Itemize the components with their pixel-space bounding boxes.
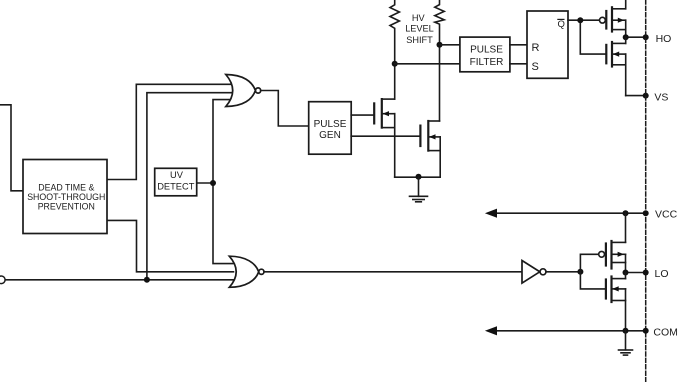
node LIN junction dot bbox=[144, 277, 150, 283]
NOR gate U2 (bottom) bbox=[229, 256, 264, 287]
svg-text:R: R bbox=[532, 42, 540, 54]
wire M6 source down to COM bbox=[625, 289, 627, 331]
box PULSE GEN bbox=[309, 102, 352, 155]
wire A (dead-time upper output to NOR1 input 1) bbox=[107, 84, 232, 179]
arrow VCC (left) bbox=[485, 209, 497, 218]
gate bubble of M3 bbox=[600, 17, 606, 23]
node COM junction dot bbox=[623, 328, 629, 334]
node Qbar junction bbox=[577, 17, 583, 23]
wire VCC to M5 drain bbox=[625, 213, 627, 242]
wire B (dead-time lower output to NOR2 input 2) bbox=[107, 220, 234, 271]
ground GND2 bbox=[625, 331, 627, 350]
wire M3 drain to top edge bbox=[625, 0, 627, 9]
wire Qbar output (latch to M3 gate) bbox=[568, 19, 600, 21]
terminal VS dot bbox=[643, 93, 649, 99]
svg-text:LO: LO bbox=[655, 268, 669, 280]
gate bubble of M5 bbox=[599, 251, 605, 257]
dashed IC boundary line bbox=[645, 0, 647, 382]
wire LIN branch (up to NOR1 input 2) bbox=[147, 93, 232, 280]
terminal HO dot bbox=[643, 34, 649, 40]
node source rail junction bbox=[416, 174, 422, 180]
arrow COM (left) bbox=[485, 326, 497, 335]
wire VS node bbox=[626, 95, 646, 97]
wire pulse gen out 1 (to M1 gate) bbox=[351, 114, 374, 116]
node inverter output junction dot bbox=[577, 269, 583, 275]
svg-text:HV: HV bbox=[412, 13, 426, 23]
wire inverter output bbox=[546, 271, 580, 273]
wire pulse gen out 2 (to M2 gate) bbox=[351, 135, 420, 137]
node LO junction dot bbox=[623, 270, 629, 276]
NOR gate U1 (top) bbox=[226, 75, 261, 107]
wire NOR1 output to pulse gen bbox=[261, 91, 309, 127]
node VCC junction dot bbox=[623, 210, 629, 216]
label PULSE FILTER text bbox=[470, 45, 504, 68]
svg-text:Q: Q bbox=[558, 19, 565, 30]
wire Qbar branch (down to M4 gate) bbox=[580, 20, 606, 54]
box PULSE FILTER bbox=[460, 37, 510, 72]
svg-text:UV: UV bbox=[170, 170, 184, 180]
wire S (to pulse filter) bbox=[395, 63, 460, 65]
wire M2 source to common rail bbox=[439, 137, 441, 177]
wire to ground bbox=[418, 177, 420, 196]
svg-text:SHIFT: SHIFT bbox=[406, 35, 433, 45]
resistor R1 (left) bbox=[390, 0, 399, 99]
wire pulse filter to latch S bbox=[510, 63, 527, 65]
ground GND1 bbox=[410, 195, 428, 197]
latch U3 (RS latch box) bbox=[527, 11, 568, 78]
svg-text:PULSE: PULSE bbox=[314, 119, 347, 130]
resistor R2 (right) bbox=[435, 0, 444, 121]
wire VCC rail bbox=[495, 212, 646, 214]
svg-text:HO: HO bbox=[656, 33, 672, 45]
terminal VCC dot bbox=[643, 210, 649, 216]
node HO junction dot bbox=[623, 34, 629, 40]
wire to M5 gate bbox=[580, 254, 598, 271]
transistor M1 (left level-shift FET) bbox=[374, 99, 382, 128]
node R1/pulse-filter S junction bbox=[392, 61, 398, 67]
wire pulse filter to latch R bbox=[510, 44, 527, 46]
wire UV detect output stub bbox=[197, 182, 214, 184]
wire to M6 gate bbox=[580, 272, 606, 289]
wire M6 drain to LO node bbox=[625, 273, 627, 279]
svg-text:GEN: GEN bbox=[319, 130, 341, 141]
svg-text:FILTER: FILTER bbox=[470, 57, 504, 68]
svg-text:DETECT: DETECT bbox=[157, 182, 195, 192]
box UV DETECT bbox=[155, 168, 197, 196]
wire UV detect net (vertical to both NOR gates) bbox=[213, 100, 235, 264]
wire common source rail bbox=[395, 176, 441, 178]
node UV junction dot bbox=[210, 180, 216, 186]
wire HO node bbox=[626, 36, 646, 38]
svg-text:PREVENTION: PREVENTION bbox=[38, 201, 95, 211]
wire M1 source to common rail bbox=[394, 114, 396, 178]
svg-text:VCC: VCC bbox=[655, 209, 678, 221]
label PULSE GEN text bbox=[314, 119, 347, 141]
box DEAD TIME / SHOOT-THROUGH PREVENTION bbox=[23, 160, 107, 234]
node R2/pulse-filter R junction bbox=[437, 42, 443, 48]
transistor M2 (right level-shift FET) bbox=[420, 121, 428, 151]
transistor M5 (low-side upper FET) bbox=[606, 241, 612, 269]
svg-text:S: S bbox=[532, 61, 539, 73]
wire NOR2 output to inverter bbox=[264, 271, 522, 273]
svg-text:VS: VS bbox=[654, 91, 668, 103]
svg-text:LEVEL: LEVEL bbox=[405, 24, 434, 34]
label UV DETECT text bbox=[157, 170, 195, 192]
wire HIN input (left edge to dead-time box) bbox=[0, 105, 23, 191]
inverter U4 bbox=[522, 261, 546, 284]
label DEAD TIME box text bbox=[27, 183, 105, 212]
transistor M3 (high-side upper FET) bbox=[606, 7, 612, 31]
wire COM rail bbox=[495, 330, 646, 332]
svg-text:PULSE: PULSE bbox=[470, 45, 503, 56]
wire M4 source down to VS bbox=[625, 54, 627, 96]
wire LO node bbox=[626, 272, 646, 274]
wire M5 source to LO node bbox=[625, 254, 627, 272]
wire M4 drain to HO node bbox=[625, 37, 627, 43]
svg-text:COM: COM bbox=[653, 326, 678, 338]
label HV LEVEL SHIFT text bbox=[405, 13, 434, 45]
transistor M4 (high-side lower FET) bbox=[606, 42, 612, 67]
wire R (to pulse filter) bbox=[440, 44, 460, 46]
wire M3 source to HO node bbox=[625, 20, 627, 37]
terminal LO dot bbox=[643, 270, 649, 276]
terminal LIN circle bbox=[0, 276, 5, 284]
terminal COM dot bbox=[643, 328, 649, 334]
wire LIN (left terminal to NOR2 input 3) bbox=[5, 279, 233, 281]
overbar of Qbar bbox=[557, 18, 564, 20]
transistor M6 (low-side lower FET) bbox=[606, 277, 612, 303]
